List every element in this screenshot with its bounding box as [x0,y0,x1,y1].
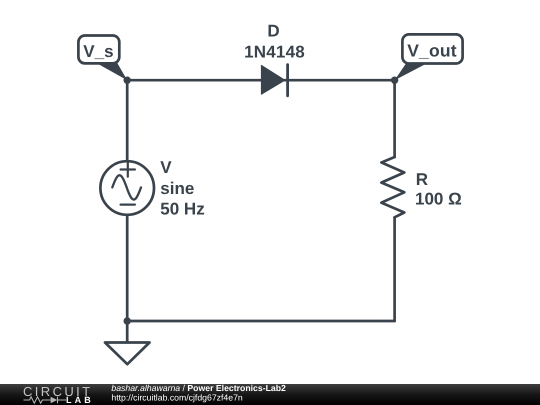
svg-text:V_s: V_s [83,42,113,61]
wire: left vertical from source bottom to ground node [126,215,129,321]
footer logo wire squiggle with resistor and diode [24,397,67,403]
wire: left vertical from V_s node to source top [126,80,129,161]
svg-text:50 Hz: 50 Hz [160,199,204,218]
voltage source V1 circle [100,161,154,215]
svg-text:1N4148: 1N4148 [244,42,305,61]
svg-text:100 Ω: 100 Ω [415,190,462,209]
voltage source V1 plus sign [121,162,135,176]
svg-text:R: R [416,170,428,189]
diode D1 symbol (1N4148) [261,65,287,96]
voltage source V1 minus sign [121,204,135,206]
wire: right vertical from V_out node to resistor top [393,80,396,157]
node junction dot V_s [124,77,131,84]
net flag V_s tail [96,63,128,81]
node junction dot ground [124,317,131,324]
wire: right vertical from resistor bottom to bottom wire [393,217,396,321]
net flag V_s box [78,36,119,64]
resistor R1 zigzag [381,157,404,217]
svg-text:sine: sine [160,179,194,198]
svg-text:http://circuitlab.com/cjfdg67z: http://circuitlab.com/cjfdg67zf4e7n [111,392,243,402]
net flag V_out tail [395,62,430,80]
voltage source V1 sine wave [112,175,141,199]
ground symbol [105,321,150,364]
net flag V_out box [402,34,462,63]
svg-text:V_out: V_out [407,41,457,61]
node junction dot V_out [391,77,398,84]
svg-text:LAB: LAB [66,395,94,405]
svg-text:V: V [160,158,172,177]
wire: bottom horizontal from ground node to resistor bottom [127,320,394,323]
wire: top horizontal V_s node to V_out node [127,79,394,82]
svg-text:D: D [267,22,279,41]
